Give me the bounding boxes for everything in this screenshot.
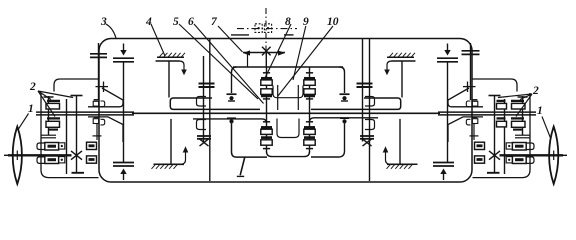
- bell housing top line right segment: [284, 34, 294, 36]
- right axle to sprocket: [500, 154, 564, 156]
- left planetary gear stack shaft: [266, 67, 268, 113]
- right side-clutch drum upper: [448, 88, 483, 107]
- right final drive outer boxes: [475, 142, 485, 149]
- left reaction anchor lower: [227, 117, 236, 119]
- right drum rail lower: [310, 118, 379, 122]
- svg-text:4: 4: [145, 16, 152, 28]
- elastic coupling left half (dashed box): [255, 24, 262, 33]
- svg-text:6: 6: [188, 16, 194, 28]
- left final drive shaft: [76, 96, 78, 174]
- clutch line right arrowhead: [278, 50, 285, 55]
- right clutch bell inner corner: [473, 79, 518, 92]
- lower stacks drum bridge: [277, 119, 299, 138]
- clutch output stub: [247, 53, 249, 67]
- right reaction anchor lower: [340, 117, 349, 119]
- right side-clutch inner gear stack: [511, 100, 524, 102]
- input shaft into gearbox: [265, 51, 267, 67]
- gear shift lever: [240, 157, 245, 175]
- main clutch cross symbol: [262, 47, 271, 56]
- lower left fixed support: [154, 163, 183, 165]
- left final drive outer boxes: [87, 142, 97, 149]
- main cross shaft left (double): [36, 111, 134, 113]
- left side-clutch shaft A: [48, 96, 50, 136]
- engine centreline (dash-dot): [237, 28, 297, 30]
- svg-text:7: 7: [211, 16, 218, 28]
- left upper band brake: [123, 44, 125, 51]
- svg-text:1: 1: [28, 103, 34, 115]
- left final drive mesh cross: [71, 151, 82, 160]
- right intermediate shaft lower gears: [360, 135, 374, 137]
- left intermediate shaft outer line: [209, 39, 211, 182]
- left lower band brake: [113, 162, 134, 164]
- right reaction anchor upper: [340, 67, 345, 93]
- left side-clutch shaft B: [66, 99, 68, 174]
- planetary frame top rail: [233, 66, 343, 68]
- right intermediate clutch hook lower: [365, 120, 375, 130]
- right planetary gear stack shaft: [309, 67, 311, 113]
- upper right fixed support: [387, 56, 414, 58]
- right side-clutch shaft B: [504, 99, 506, 174]
- upper left support arrow: [179, 61, 184, 70]
- main cross shaft right (double): [438, 111, 536, 113]
- left planetary stack lower gears: [263, 121, 270, 123]
- right axle stub: [561, 154, 567, 156]
- coupling right pin: [267, 27, 269, 29]
- right planetary stack lower gears: [306, 121, 313, 123]
- right intermediate shaft gears: [357, 83, 373, 85]
- right intermediate shaft inner line: [362, 39, 364, 142]
- right drum pivot cross: [463, 86, 476, 88]
- left intermediate shaft lower gears: [197, 135, 211, 137]
- right side-clutch middle gear pair: [497, 100, 506, 102]
- right final drive gear boxes: [512, 143, 526, 151]
- right final drive housing: [473, 93, 531, 178]
- svg-text:3: 3: [100, 16, 107, 28]
- left drum rail lower: [193, 119, 267, 123]
- svg-text:2: 2: [29, 81, 36, 93]
- right side-clutch shaft A: [522, 96, 524, 136]
- svg-text:5: 5: [173, 16, 179, 28]
- upper stacks inner sleeves: [277, 85, 279, 110]
- left axle bearing brackets: [37, 143, 45, 150]
- left sun shaft: [123, 62, 125, 162]
- right axle bearing brackets: [526, 143, 534, 150]
- left final drive housing: [41, 93, 99, 178]
- upper left fixed support: [157, 56, 184, 58]
- left final drive gear boxes: [45, 143, 59, 151]
- bell housing top line left segment: [231, 34, 249, 36]
- left intermediate mesh cross: [200, 139, 209, 146]
- elastic coupling right half (dashed box): [264, 24, 271, 33]
- coupling left pin: [257, 27, 259, 29]
- right final drive shaft: [494, 96, 496, 174]
- right side-clutch drum lower: [448, 117, 483, 142]
- right sun shaft: [447, 62, 449, 162]
- left axle to sprocket: [8, 154, 72, 156]
- right final drive mesh cross: [489, 151, 500, 160]
- upper stacks drum bridge: [273, 86, 303, 98]
- left planetary stack upper gears: [263, 72, 270, 74]
- left clutch bell inner corner: [54, 79, 99, 92]
- right intermediate clutch hook upper: [365, 97, 375, 107]
- left sprocket wheel: [13, 127, 22, 185]
- left side-clutch release fork: [96, 124, 98, 140]
- main cross shaft: [132, 112, 440, 114]
- right sprocket wheel: [549, 127, 558, 185]
- lower left support arrow: [180, 153, 186, 165]
- lower right fixed support: [389, 163, 418, 165]
- left intermediate clutch hook upper: [197, 97, 207, 107]
- right lower band brake: [433, 162, 454, 164]
- right intermediate shaft outer line: [369, 39, 371, 182]
- left drum pivot cross: [96, 86, 109, 88]
- lower stacks connecting rail: [267, 152, 310, 157]
- right drum upper outline: [311, 98, 401, 109]
- main clutch shaft line: [243, 52, 285, 54]
- right planetary stack upper gears: [306, 72, 313, 74]
- left intermediate shaft gears: [199, 83, 215, 85]
- left reaction anchor upper: [232, 67, 237, 93]
- right side-clutch release fork: [473, 124, 475, 140]
- left intermediate clutch hook lower: [197, 120, 207, 130]
- right intermediate mesh cross: [363, 139, 372, 146]
- right clutch bell shaft: [470, 43, 472, 100]
- left axle stub: [4, 154, 10, 156]
- left intermediate shaft inner line: [203, 56, 205, 142]
- left drum upper outline: [170, 98, 260, 109]
- left side-clutch inner gear stack: [47, 100, 60, 102]
- svg-text:2: 2: [532, 85, 539, 97]
- input shaft centreline vertical (dash-dot): [265, 8, 267, 57]
- upper right support arrow: [387, 61, 392, 70]
- lower right support arrow: [386, 153, 392, 165]
- left clutch bell shaft: [98, 43, 100, 100]
- gearbox housing outline: [99, 39, 472, 183]
- clutch line left arrowhead: [243, 50, 250, 55]
- right upper band brake: [447, 44, 449, 51]
- svg-text:1: 1: [537, 105, 543, 117]
- left side-clutch drum upper: [88, 88, 123, 107]
- left side-clutch drum lower: [88, 117, 123, 142]
